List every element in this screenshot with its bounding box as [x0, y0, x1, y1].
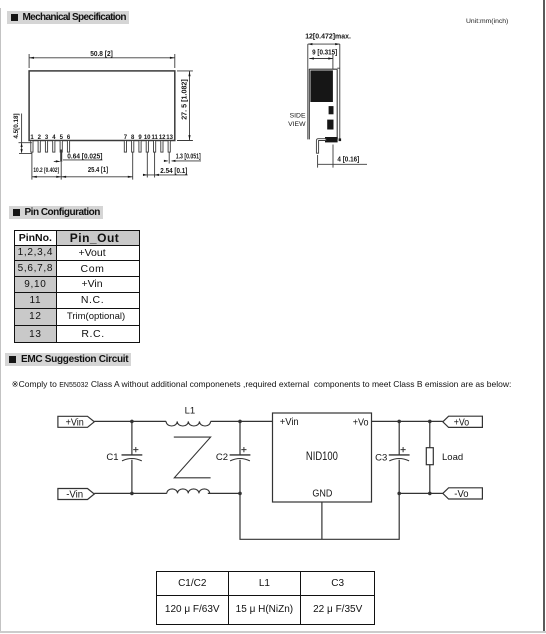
component value table: [156, 571, 375, 625]
svg-text:Load: Load: [442, 452, 463, 463]
terminal flag -Vo: [443, 488, 483, 499]
module NID100 box: [273, 413, 372, 502]
svg-text:L1: L1: [185, 406, 196, 417]
junction C1 top: [130, 420, 134, 424]
side view black components: [310, 70, 341, 142]
svg-text:0.64 [0.025]: 0.64 [0.025]: [67, 153, 102, 160]
svg-text:VIEW: VIEW: [288, 121, 306, 128]
side view arrowheads: [308, 43, 340, 60]
svg-text:13: 13: [166, 135, 173, 141]
front view pin numbers: [30, 135, 173, 141]
dim 2.54: [143, 153, 188, 178]
pin5 bold leader 0.64: [60, 150, 62, 162]
section header: Pin Configuration: [9, 206, 103, 219]
section header: Mechanical Specification: [7, 11, 129, 24]
svg-text:+Vo: +Vo: [454, 417, 470, 428]
page frame bottom: [0, 631, 546, 633]
wire: bottom rail to C2 junction: [208, 492, 240, 494]
front view arrowheads: [21, 57, 191, 178]
front view body: [29, 71, 175, 141]
terminal flag +Vo: [443, 416, 483, 427]
svg-text:12[0.472]max.: 12[0.472]max.: [305, 34, 351, 41]
svg-text:+Vin: +Vin: [280, 417, 299, 428]
wire: +Vin top rail left: [94, 420, 166, 422]
junction C2 top: [238, 420, 242, 424]
svg-text:GND: GND: [312, 487, 332, 499]
dim 10.2 / 25.4 extension+line: [32, 153, 133, 180]
front view pins 1-13: [31, 141, 171, 153]
inductor L1 top winding: [166, 421, 210, 426]
svg-text:-Vin: -Vin: [66, 489, 83, 500]
svg-text:10.2 [0.402]: 10.2 [0.402]: [33, 167, 59, 174]
section header: EMC Suggestion Circuit: [5, 353, 131, 366]
side dim 4: [318, 145, 367, 168]
wire: -Vin bottom rail: [94, 492, 167, 494]
wire: +Vo rail: [372, 420, 443, 422]
page frame right: [543, 0, 545, 633]
junction Load bottom: [428, 492, 432, 496]
wire: top rail to NID100: [211, 420, 273, 422]
side view outline: [308, 44, 367, 168]
wire: GND pin down: [321, 502, 323, 539]
junction C3 bottom: [397, 492, 401, 496]
svg-text:11: 11: [152, 135, 159, 141]
side dim 9: [309, 54, 333, 69]
wire: -Vo rail: [399, 492, 443, 494]
svg-text:-Vo: -Vo: [454, 489, 469, 500]
junction Load top: [428, 420, 432, 424]
svg-text:C2: C2: [216, 452, 228, 463]
EMC circuit: [58, 413, 483, 539]
svg-text:C3: C3: [375, 453, 387, 464]
svg-text:4 [0.16]: 4 [0.16]: [337, 156, 359, 163]
svg-text:50.8 [2]: 50.8 [2]: [90, 51, 113, 58]
choke core Z: [174, 437, 211, 478]
dim 27.5 extension+line: [177, 71, 193, 141]
inductor L1 bottom winding: [167, 489, 210, 494]
svg-text:NID100: NID100: [306, 449, 338, 463]
svg-text:9 [0.315]: 9 [0.315]: [312, 50, 337, 57]
terminal flag -Vin: [58, 489, 94, 500]
junction C3 top: [397, 420, 401, 424]
svg-text:SIDE: SIDE: [290, 113, 306, 120]
EMC note: [12, 379, 512, 390]
side view bent pin: [316, 139, 326, 154]
svg-text:2.54 [0.1]: 2.54 [0.1]: [160, 168, 187, 175]
terminal flag +Vin: [58, 416, 94, 427]
unit note: [466, 18, 508, 25]
svg-text:10: 10: [144, 135, 151, 141]
svg-text:25.4 [1]: 25.4 [1]: [88, 167, 108, 174]
dim 1.3: [164, 153, 201, 164]
capacitor C1: [122, 421, 143, 493]
dim 4.5 extension+line: [19, 114, 32, 154]
svg-text:4.5[0.18]: 4.5[0.18]: [13, 113, 20, 138]
wire: return path C2 junction down, along bottom, up to -Vo rail: [240, 493, 399, 539]
junction C2 bottom: [238, 492, 242, 496]
svg-text:1.3 [0.051]: 1.3 [0.051]: [176, 153, 201, 160]
capacitor C3: [389, 421, 410, 493]
pin configuration table: [14, 230, 140, 344]
side view texts: [288, 34, 359, 164]
circuit labels: [66, 406, 470, 501]
svg-text:+Vin: +Vin: [66, 417, 84, 428]
page frame left: [0, 8, 1, 632]
svg-text:27. 5 [1.082]: 27. 5 [1.082]: [182, 79, 189, 120]
front view dimension texts: [13, 51, 201, 175]
capacitor C2: [230, 421, 251, 493]
svg-text:C1: C1: [106, 452, 118, 463]
side dim 12: [308, 43, 340, 45]
dim 50.8 extension+line: [29, 54, 175, 68]
junction C1 bottom: [130, 492, 134, 496]
svg-text:+Vo: +Vo: [353, 417, 369, 428]
svg-text:12: 12: [159, 135, 166, 141]
resistor Load: [426, 421, 433, 493]
